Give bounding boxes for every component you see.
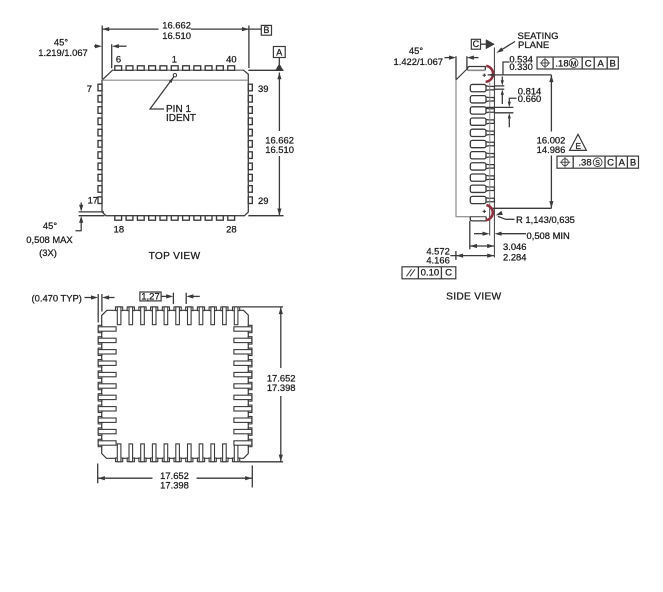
seating plane vertical line bbox=[493, 48, 495, 258]
revision triangle E bbox=[570, 134, 587, 151]
datum B box bbox=[261, 25, 271, 35]
side view body: left face, chamfer, top and bottom edges bbox=[456, 69, 472, 217]
top view pin tab top row #5 bbox=[160, 66, 167, 71]
bottom view lead right column #9 bbox=[234, 417, 252, 424]
top view pin tab right column #5 bbox=[248, 129, 252, 136]
svg-text:C: C bbox=[445, 268, 452, 279]
bottom view lead right column #7 bbox=[234, 394, 252, 401]
top view pin tab top row #1 bbox=[115, 66, 122, 71]
bottom view lead top row #8 bbox=[197, 307, 204, 325]
top view pin tab bottom row #10 bbox=[217, 216, 224, 221]
svg-text:SIDE VIEW: SIDE VIEW bbox=[446, 292, 501, 303]
top view: 45deg 0,508 MAX (3X) chamfer dimension lower left bbox=[26, 203, 104, 259]
svg-text:2.284: 2.284 bbox=[503, 251, 526, 262]
side view: 45deg 1.422/1.067 chamfer dimension bbox=[394, 45, 479, 80]
top view pin tab bottom row #11 bbox=[228, 216, 235, 221]
top view pin tab left column #11 bbox=[98, 197, 102, 204]
bottom view lead top row #10 bbox=[221, 307, 228, 325]
top view pin numbers bbox=[87, 53, 269, 234]
svg-text:C: C bbox=[473, 39, 480, 49]
bottom view lead left column #2 bbox=[98, 337, 116, 344]
svg-text:4.166: 4.166 bbox=[426, 255, 449, 266]
svg-text:1,27: 1,27 bbox=[141, 291, 160, 302]
R 1,143/0,635 radius callout bbox=[496, 211, 575, 225]
bottom view lead bottom row #3 bbox=[139, 444, 146, 462]
top view pin tab left column #4 bbox=[98, 118, 102, 125]
top view pin tab left column #6 bbox=[98, 141, 102, 148]
top view pin tab left column #10 bbox=[98, 186, 102, 193]
svg-text:B: B bbox=[263, 25, 269, 35]
top view pin tab top row #6 bbox=[171, 66, 178, 71]
pin 1 ident circle and leader bbox=[150, 74, 196, 125]
svg-text:29: 29 bbox=[258, 195, 268, 206]
top view pin tab bottom row #8 bbox=[194, 216, 201, 221]
top view pin tab top row #3 bbox=[137, 66, 144, 71]
top view pin tab top row #11 bbox=[228, 66, 235, 71]
16.002/14.986 vertical dimension bbox=[493, 75, 566, 208]
top view pin tab top row #4 bbox=[149, 66, 156, 71]
bottom view 17.652/17.398 vertical dimension right bbox=[240, 307, 296, 462]
svg-text:A: A bbox=[598, 58, 605, 69]
top view pin tab top row #8 bbox=[194, 66, 201, 71]
4.572/4.166 dimension bbox=[426, 246, 494, 266]
bottom view lead bottom row #1 bbox=[116, 444, 123, 462]
bottom view lead right column #11 bbox=[234, 439, 252, 446]
bottom view lead top row #6 bbox=[174, 307, 181, 325]
datum A box with filled triangle on top edge extension bbox=[248, 47, 285, 71]
svg-text:16.510: 16.510 bbox=[265, 144, 294, 155]
bottom view lead top row #11 bbox=[233, 307, 240, 325]
svg-text:17.398: 17.398 bbox=[267, 382, 296, 393]
svg-text:7: 7 bbox=[87, 83, 92, 94]
bottom view lead bottom row #5 bbox=[162, 444, 169, 462]
side view vertical line through leads (gray) bbox=[489, 83, 491, 236]
svg-text:39: 39 bbox=[258, 83, 268, 94]
datum C box with seating plane triangle bbox=[471, 39, 494, 49]
bottom view lead bottom row #8 bbox=[197, 444, 204, 462]
bottom view lead left column #11 bbox=[98, 439, 116, 446]
bottom view lead top row #2 bbox=[127, 307, 134, 325]
top view pin tab right column #7 bbox=[248, 152, 252, 159]
bottom view lead bottom row #7 bbox=[186, 444, 193, 462]
top view pin tab bottom row #9 bbox=[205, 216, 212, 221]
svg-text:S: S bbox=[595, 160, 600, 167]
svg-text:C: C bbox=[585, 58, 592, 69]
svg-text:E: E bbox=[575, 141, 581, 151]
TOP VIEW caption bbox=[149, 251, 201, 262]
top view pin tab left column #9 bbox=[98, 174, 102, 181]
bottom view lead right column #3 bbox=[234, 348, 252, 355]
top view pin tab left column #3 bbox=[98, 107, 102, 114]
bottom view lead top row #1 bbox=[116, 307, 123, 325]
top view pin tab bottom row #2 bbox=[126, 216, 133, 221]
bottom view lead bottom row #6 bbox=[174, 444, 181, 462]
top view pin tab left column #1 bbox=[98, 84, 102, 91]
top view: 16.662/16.510 vertical dimension at right bbox=[248, 73, 294, 216]
svg-text:14.986: 14.986 bbox=[537, 144, 566, 155]
bottom view lead top row #7 bbox=[186, 307, 193, 325]
bottom view lead right column #10 bbox=[234, 428, 252, 435]
svg-text:PLANE: PLANE bbox=[518, 40, 549, 51]
svg-text:C: C bbox=[607, 158, 614, 169]
top view pin tab bottom row #3 bbox=[137, 216, 144, 221]
feature control frame .18 M C A B bbox=[537, 57, 618, 69]
0.814/0.660 dimension (lead thickness) bbox=[485, 85, 541, 127]
bottom view lead right column #6 bbox=[234, 382, 252, 389]
0,508 MIN dimension bbox=[474, 230, 570, 241]
bottom view lead left column #4 bbox=[98, 360, 116, 367]
svg-text:1: 1 bbox=[172, 53, 177, 64]
top view pin tab right column #6 bbox=[248, 141, 252, 148]
svg-text:40: 40 bbox=[226, 53, 236, 64]
bottom view lead left column #5 bbox=[98, 371, 116, 378]
bottom view lead left column #9 bbox=[98, 417, 116, 424]
top view pin tab left column #2 bbox=[98, 95, 102, 102]
top view pin tab top row #2 bbox=[126, 66, 133, 71]
top view: 45deg 1.219/1.067 chamfer dimension upper left bbox=[38, 36, 126, 68]
red radius arc bottom right corner bbox=[483, 205, 493, 220]
svg-text:IDENT: IDENT bbox=[166, 113, 196, 124]
top view pin tab top row #7 bbox=[183, 66, 190, 71]
top view pin tab top row #9 bbox=[205, 66, 212, 71]
top view pin tab right column #2 bbox=[248, 95, 252, 102]
side view top lead bump above body edge bbox=[468, 67, 486, 71]
bottom view lead left column #10 bbox=[98, 428, 116, 435]
bottom view lead left column #8 bbox=[98, 405, 116, 412]
bottom view lead top row #5 bbox=[162, 307, 169, 325]
top view pin tab right column #9 bbox=[248, 174, 252, 181]
svg-text:6: 6 bbox=[116, 53, 121, 64]
svg-text:28: 28 bbox=[226, 224, 236, 235]
svg-text:A: A bbox=[276, 48, 282, 58]
bottom view lead bottom row #10 bbox=[221, 444, 228, 462]
bottom view (0.470 TYP) dimension bbox=[32, 292, 115, 322]
bottom view lead bottom row #11 bbox=[233, 444, 240, 462]
svg-text:B: B bbox=[610, 58, 616, 69]
top view pin tab left column #7 bbox=[98, 152, 102, 159]
flatness feature control frame // 0.10 C bbox=[402, 267, 456, 279]
top view pin tab right column #8 bbox=[248, 163, 252, 170]
bottom view lead top row #3 bbox=[139, 307, 146, 325]
bottom view lead right column #1 bbox=[234, 325, 252, 332]
bottom view lead right column #4 bbox=[234, 360, 252, 367]
bottom view lead top row #9 bbox=[209, 307, 216, 325]
bottom view lead bottom row #9 bbox=[209, 444, 216, 462]
bottom view lead top row #4 bbox=[151, 307, 158, 325]
SIDE VIEW caption bbox=[446, 292, 501, 303]
bottom view lead left column #7 bbox=[98, 394, 116, 401]
bottom view lead right column #8 bbox=[234, 405, 252, 412]
top view pin tab top row #10 bbox=[217, 66, 224, 71]
bottom view lead left column #6 bbox=[98, 382, 116, 389]
top view pin tab bottom row #6 bbox=[171, 216, 178, 221]
top view pin tab left column #8 bbox=[98, 163, 102, 170]
bottom view lead right column #2 bbox=[234, 337, 252, 344]
svg-text:R 1,143/0,635: R 1,143/0,635 bbox=[516, 214, 575, 225]
top view pin tab right column #3 bbox=[248, 107, 252, 114]
SEATING PLANE label with leader bbox=[497, 31, 559, 53]
svg-text:0,508 MIN: 0,508 MIN bbox=[527, 230, 570, 241]
svg-text:A: A bbox=[619, 158, 626, 169]
svg-text:0.10: 0.10 bbox=[421, 268, 440, 279]
svg-text:(0.470 TYP): (0.470 TYP) bbox=[32, 292, 82, 303]
3.046/2.284 dimension bbox=[470, 221, 527, 263]
svg-text:16.510: 16.510 bbox=[162, 30, 191, 41]
svg-text:17.398: 17.398 bbox=[160, 479, 189, 490]
top view pin tab left column #5 bbox=[98, 129, 102, 136]
svg-text:.18: .18 bbox=[555, 58, 568, 69]
svg-text:1.422/1.067: 1.422/1.067 bbox=[394, 56, 444, 67]
bottom view 1,27 pitch dimension with box bbox=[140, 291, 200, 304]
top view pin tab bottom row #5 bbox=[160, 216, 167, 221]
top view pin tab right column #10 bbox=[248, 186, 252, 193]
svg-text:(3X): (3X) bbox=[39, 247, 57, 258]
red radius arc top right corner bbox=[483, 66, 493, 82]
bottom view lead bottom row #4 bbox=[151, 444, 158, 462]
svg-text:0.330: 0.330 bbox=[509, 61, 532, 72]
svg-text:B: B bbox=[630, 158, 636, 169]
svg-text:45°: 45° bbox=[43, 220, 57, 231]
bottom view lead right column #5 bbox=[234, 371, 252, 378]
svg-text:1.219/1.067: 1.219/1.067 bbox=[38, 47, 88, 58]
top view pin tab right column #4 bbox=[248, 118, 252, 125]
feature control frame .38 S C A B bbox=[557, 156, 639, 169]
bottom view lead left column #3 bbox=[98, 348, 116, 355]
top view pin tab bottom row #7 bbox=[183, 216, 190, 221]
bottom view 17.652/17.398 horizontal dimension bottom bbox=[98, 464, 253, 491]
top view pin tab bottom row #4 bbox=[149, 216, 156, 221]
top view: 16.662/16.510 horizontal dimension line with arrows and datum B flag bbox=[102, 20, 261, 41]
top view: 16.662 horizontal dimension extension lines bbox=[102, 26, 249, 80]
top view pin tab bottom row #1 bbox=[115, 216, 122, 221]
bottom view lead bottom row #2 bbox=[127, 444, 134, 462]
svg-text:.38: .38 bbox=[578, 158, 591, 169]
svg-text:0,508 MAX: 0,508 MAX bbox=[26, 234, 73, 245]
svg-text:M: M bbox=[571, 61, 577, 68]
side view J-leads (11 leads in profile) bbox=[470, 84, 494, 91]
side view bottom lead foot below body edge bbox=[470, 217, 486, 221]
svg-text:0.660: 0.660 bbox=[518, 93, 541, 104]
bottom view lead left column #1 bbox=[98, 325, 116, 332]
top view package body outline with corner chamfers bbox=[102, 70, 248, 215]
top view pin tab right column #11 bbox=[248, 197, 252, 204]
top view pin tab right column #1 bbox=[248, 84, 252, 91]
svg-text:17: 17 bbox=[88, 195, 98, 206]
svg-text:45°: 45° bbox=[409, 45, 423, 56]
bottom view package outline octagon bbox=[102, 310, 249, 458]
svg-text:18: 18 bbox=[114, 224, 124, 235]
svg-text:45°: 45° bbox=[54, 36, 68, 47]
svg-text:TOP VIEW: TOP VIEW bbox=[149, 251, 201, 262]
0.534/0.330 dimension (top lead tip) bbox=[488, 54, 552, 104]
